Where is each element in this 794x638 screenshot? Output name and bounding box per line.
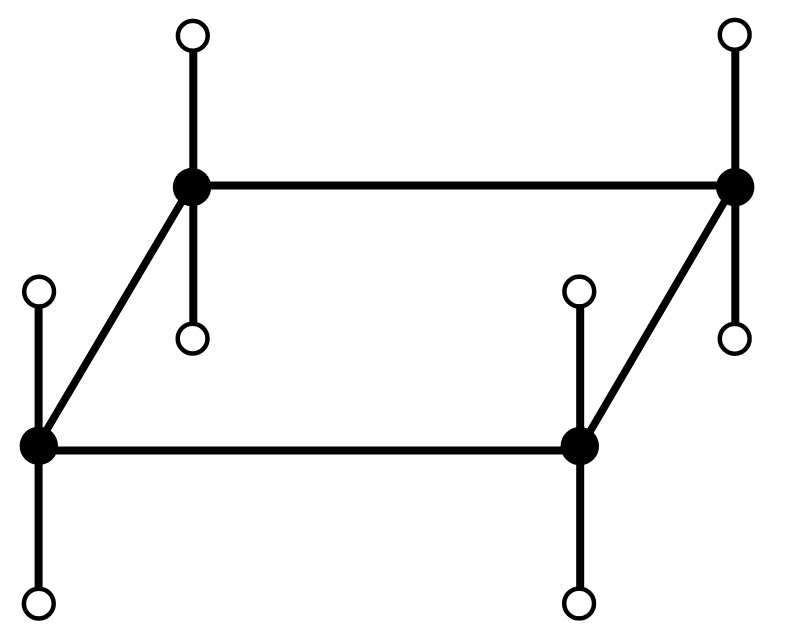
node B-up: open pendant vertex above B: [720, 20, 750, 50]
wire: pendant column through node A (vertical): [189, 36, 197, 339]
node D: bottom-right filled vertex: [561, 427, 599, 465]
node B: top-right filled vertex: [716, 168, 754, 206]
wire: edge A-B (top horizontal): [191, 182, 735, 190]
wire: edge B-D (right diagonal): [582, 187, 734, 446]
node B-down: open pendant vertex below B: [720, 324, 750, 354]
wire: pendant column through node C (vertical): [35, 292, 43, 604]
node A-up: open pendant vertex above A: [178, 21, 208, 51]
node A: top-left filled vertex: [173, 168, 211, 206]
node C: bottom-left filled vertex: [20, 427, 58, 465]
wire: pendant column through node D (vertical): [576, 292, 584, 604]
node D-down: open pendant vertex below D: [564, 589, 594, 619]
node C-up: open pendant vertex above C: [24, 277, 54, 307]
node C-down: open pendant vertex below C: [24, 589, 54, 619]
wire: pendant column through node B (vertical): [731, 35, 739, 339]
wire: edge C-D (bottom horizontal): [38, 447, 581, 455]
node A-down: open pendant vertex below A: [178, 324, 208, 354]
node D-up: open pendant vertex above D: [564, 277, 594, 307]
wire: edge A-C (left diagonal): [37, 187, 190, 446]
